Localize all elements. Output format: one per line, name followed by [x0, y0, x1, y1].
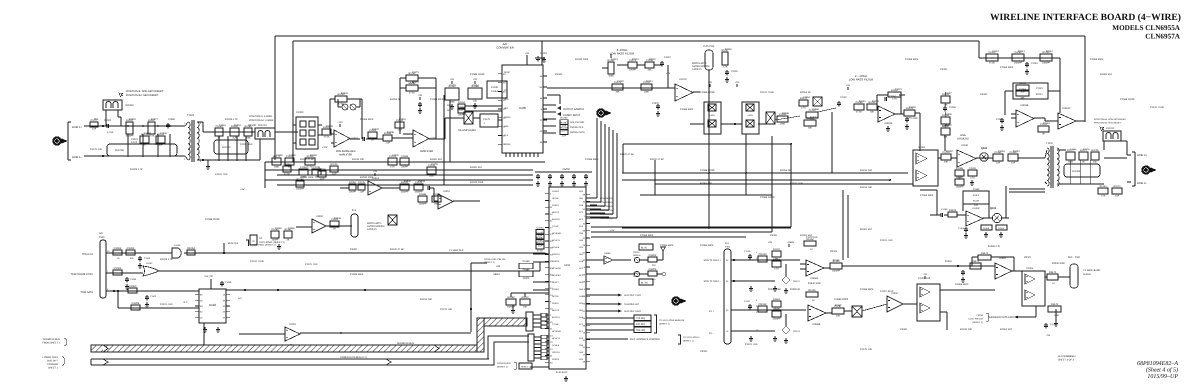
svg-text:54: 54 [583, 273, 586, 276]
svg-text:C1143: C1143 [992, 50, 999, 53]
svg-text:MODELS CLN6955A: MODELS CLN6955A [1112, 24, 1180, 32]
svg-text:C1281: C1281 [969, 167, 977, 170]
svg-text:C1131 .01UF: C1131 .01UF [880, 290, 894, 293]
svg-text:4.7K: 4.7K [801, 106, 806, 109]
svg-text:U1093A: U1093A [884, 122, 893, 125]
svg-text:20: 20 [540, 130, 543, 133]
svg-text:C1106: C1106 [491, 86, 499, 89]
svg-text:COUTB5 (A): COUTB5 (A) [600, 217, 613, 220]
svg-text:10K: 10K [943, 135, 948, 138]
svg-text:R1040 100K: R1040 100K [1052, 262, 1065, 265]
svg-text:C1066 33PF: C1066 33PF [700, 244, 714, 247]
svg-text:C1308: C1308 [401, 155, 409, 158]
svg-text:R1120 47.5K: R1120 47.5K [390, 248, 404, 251]
svg-text:C1196: C1196 [288, 227, 295, 230]
svg-text:43: 43 [583, 281, 586, 284]
svg-text:31: 31 [550, 355, 553, 358]
svg-text:31: 31 [583, 222, 586, 225]
svg-text:R1055 2K: R1055 2K [790, 288, 801, 291]
svg-text:MCUADR: MCUADR [552, 267, 561, 270]
svg-text:JU1008: JU1008 [115, 149, 124, 152]
svg-text:C1044: C1044 [536, 227, 544, 230]
svg-text:TDM CLK: TDM CLK [82, 253, 93, 256]
svg-text:430: 430 [130, 257, 134, 260]
svg-text:AGND: AGND [504, 116, 511, 119]
svg-text:TO: TO [259, 237, 262, 240]
svg-text:C1178: C1178 [431, 163, 438, 166]
svg-text:33K: 33K [647, 68, 652, 71]
svg-text:U1139: U1139 [961, 144, 969, 147]
svg-text:R1172: R1172 [981, 252, 989, 255]
svg-text:47.5K: 47.5K [338, 102, 344, 105]
svg-text:FLT5 P101: FLT5 P101 [703, 45, 715, 48]
svg-text:C1088 220PF: C1088 220PF [1120, 98, 1135, 101]
svg-text:B–XLXLX2: B–XLXLX2 [556, 371, 568, 374]
svg-text:RC1: RC1 [579, 218, 584, 221]
svg-text:(Sheet 4 of 5): (Sheet 4 of 5) [1146, 367, 1178, 374]
svg-text:R1040 100K: R1040 100K [575, 58, 589, 61]
svg-text:R1019: R1019 [234, 124, 241, 127]
svg-text:C1125: C1125 [744, 250, 751, 253]
svg-text:R1171: R1171 [972, 260, 980, 263]
svg-text:SHEET 3 OF 3: SHEET 3 OF 3 [1058, 359, 1075, 362]
svg-text:+5V: +5V [240, 188, 245, 191]
svg-text:R1131: R1131 [859, 100, 866, 103]
svg-text:C1397: C1397 [458, 106, 466, 109]
svg-text:R1040 100K: R1040 100K [768, 288, 781, 291]
svg-text:MCUDBS: MCUDBS [552, 274, 561, 277]
svg-text:R1122: R1122 [649, 58, 656, 61]
svg-text:POSITION A: 4-WIRE: POSITION A: 4-WIRE [249, 115, 273, 118]
svg-text:P101: P101 [1075, 256, 1081, 259]
svg-text:(SHEET 1): (SHEET 1) [484, 261, 495, 264]
svg-text:26: 26 [200, 299, 203, 302]
svg-text:R1150: R1150 [946, 150, 953, 153]
svg-text:TSYNC: TSYNC [552, 225, 559, 228]
svg-text:AMPLIFIER: AMPLIFIER [339, 154, 352, 157]
svg-text:1500PF: 1500PF [772, 317, 781, 320]
svg-text:+5VDC: +5VDC [562, 168, 570, 171]
svg-text:1500PF: 1500PF [1042, 61, 1051, 64]
svg-text:R1061 51K: R1061 51K [700, 182, 712, 185]
svg-text:PL −: PL − [709, 332, 714, 335]
svg-text:U1090: U1090 [604, 252, 611, 255]
svg-text:1UF: 1UF [232, 136, 237, 139]
svg-text:52: 52 [583, 252, 586, 255]
svg-text:R1137: R1137 [945, 92, 952, 95]
svg-text:POSITION B4: SECURENET: POSITION B4: SECURENET [1094, 122, 1122, 125]
svg-text:FROM U101–PIN 103: FROM U101–PIN 103 [484, 258, 506, 261]
svg-text:PL +: PL + [709, 310, 714, 313]
svg-text:U1004: U1004 [430, 137, 437, 140]
svg-text:C1136: C1136 [911, 117, 918, 120]
svg-text:11: 11 [756, 257, 759, 260]
svg-text:8: 8 [584, 288, 586, 291]
svg-text:+5V: +5V [610, 229, 615, 232]
svg-text:Q101: Q101 [990, 207, 997, 210]
svg-text:3: 3 [200, 122, 202, 125]
svg-text:37: 37 [540, 119, 543, 122]
svg-text:R1165: R1165 [808, 289, 816, 292]
svg-text:TO U101–PIN 11: TO U101–PIN 11 [683, 336, 700, 339]
svg-text:C1179 1UF: C1179 1UF [90, 148, 103, 151]
svg-text:50: 50 [540, 86, 543, 89]
svg-text:LINE 2−: LINE 2− [1137, 181, 1148, 185]
svg-text:(SHEET 1): (SHEET 1) [659, 323, 670, 326]
svg-text:C1066 33PF: C1066 33PF [350, 273, 364, 276]
svg-text:R1120 47.5K: R1120 47.5K [650, 158, 664, 161]
svg-text:R1070: R1070 [810, 116, 817, 119]
svg-text:100K: 100K [274, 165, 280, 168]
svg-text:C1066 33PF: C1066 33PF [905, 58, 919, 61]
svg-text:COUTB3 (A): COUTB3 (A) [600, 209, 613, 212]
svg-text:U1001: U1001 [351, 137, 358, 140]
svg-text:RESET 1: RESET 1 [521, 366, 530, 369]
svg-text:C1024: C1024 [144, 132, 151, 135]
svg-text:U1096A: U1096A [810, 277, 819, 280]
svg-text:R1220: R1220 [956, 176, 964, 179]
svg-text:OPTN2: OPTN2 [552, 197, 560, 200]
svg-text:C1066 33PF: C1066 33PF [1090, 58, 1104, 61]
svg-text:31: 31 [583, 339, 586, 342]
svg-text:R1055 2K: R1055 2K [390, 98, 401, 101]
svg-text:C1101 .1UF: C1101 .1UF [215, 173, 228, 176]
svg-text:100K: 100K [434, 202, 440, 205]
svg-text:SCIALB: SCIALB [552, 344, 560, 347]
svg-text:R1126: R1126 [725, 48, 732, 51]
svg-text:53: 53 [200, 294, 203, 297]
svg-text:PORTA: PORTA [552, 302, 559, 305]
svg-text:25: 25 [583, 302, 586, 305]
svg-text:R1055 2K: R1055 2K [780, 169, 791, 172]
svg-text:CODEC: CODEC [552, 190, 560, 193]
svg-text:R1387: R1387 [560, 122, 568, 125]
svg-text:1500PF: 1500PF [832, 269, 841, 272]
svg-text:BL TN: BL TN [641, 282, 648, 285]
svg-text:R1222: R1222 [773, 248, 781, 251]
svg-text:CARD #1: CARD #1 [692, 68, 702, 71]
svg-text:U1103: U1103 [289, 323, 296, 326]
svg-text:C1129: C1129 [731, 70, 738, 73]
svg-text:10K: 10K [870, 110, 875, 113]
svg-text:SDN TX DATA −: SDN TX DATA − [704, 280, 722, 283]
svg-text:220: 220 [652, 278, 656, 281]
svg-text:R1254: R1254 [458, 101, 466, 104]
svg-text:DM IRL DATA: DM IRL DATA [570, 131, 585, 134]
svg-text:TO U101–PINS 96/35/101: TO U101–PINS 96/35/101 [659, 319, 685, 322]
svg-text:C1070: C1070 [652, 102, 659, 105]
svg-text:JU1012: JU1012 [1106, 127, 1115, 130]
svg-text:R1061 51K: R1061 51K [430, 158, 442, 161]
svg-text:MATES WITH: MATES WITH [692, 62, 707, 65]
svg-text:R1061 51K: R1061 51K [860, 228, 872, 231]
svg-text:TDM FRAME SYNC: TDM FRAME SYNC [71, 273, 94, 276]
svg-text:JU1011: JU1011 [125, 104, 134, 107]
svg-text:R1299 4.7K: R1299 4.7K [988, 245, 1001, 248]
svg-text:R1167: R1167 [835, 304, 842, 307]
svg-text:+5V: +5V [473, 78, 478, 81]
svg-text:R1015: R1015 [129, 118, 136, 121]
svg-text:R1077: R1077 [536, 242, 544, 245]
svg-text:FLD: FLD [725, 242, 730, 245]
svg-text:47.5K: 47.5K [856, 110, 862, 113]
svg-text:CLN6957A: CLN6957A [1145, 33, 1181, 41]
svg-text:R1074: R1074 [1113, 185, 1121, 188]
svg-text:U118: U118 [209, 303, 216, 307]
svg-text:C1066 33PF: C1066 33PF [430, 98, 444, 101]
svg-text:2K: 2K [1082, 160, 1085, 163]
svg-text:220PF: 220PF [349, 190, 356, 193]
svg-text:C1203: C1203 [1019, 82, 1027, 85]
svg-text:PA4: PA4 [579, 204, 584, 207]
svg-text:U1102: U1102 [146, 262, 153, 265]
svg-text:C1060: C1060 [168, 118, 175, 121]
svg-text:R1361: R1361 [945, 260, 952, 263]
svg-text:R1203: R1203 [649, 268, 657, 271]
svg-text:100K: 100K [429, 174, 435, 177]
svg-text:WIRELINE INTERFACE BOARD (4−WI: WIRELINE INTERFACE BOARD (4−WIRE) [990, 12, 1181, 23]
svg-text:C1088 220PF: C1088 220PF [700, 169, 715, 172]
svg-text:ADL CH VSD: ADL CH VSD [570, 121, 585, 124]
svg-text:CLK: CLK [504, 134, 509, 137]
svg-text:1500PF: 1500PF [1014, 61, 1023, 64]
svg-text:N.C.: N.C. [184, 301, 189, 304]
svg-text:1UF: 1UF [1011, 161, 1016, 164]
svg-text:Q102: Q102 [981, 147, 988, 150]
svg-text:470PF: 470PF [973, 194, 980, 197]
svg-text:CR101: CR101 [830, 250, 838, 253]
svg-text:LINE 1−: LINE 1− [72, 155, 83, 159]
svg-text:U1096B: U1096B [812, 323, 821, 326]
svg-text:220: 220 [652, 264, 656, 267]
svg-text:C1133: C1133 [895, 88, 902, 91]
svg-text:12: 12 [583, 353, 586, 356]
svg-text:R1204: R1204 [132, 302, 140, 305]
svg-text:C1160: C1160 [973, 188, 980, 191]
svg-text:R1040 100K: R1040 100K [300, 176, 314, 179]
svg-text:U1010: U1010 [443, 190, 450, 193]
svg-text:+5V: +5V [923, 273, 928, 276]
svg-text:47.5K: 47.5K [323, 135, 329, 138]
svg-text:C1195: C1195 [275, 227, 282, 230]
svg-text:+5V: +5V [846, 84, 851, 87]
svg-text:AUX OUT 2 HIT: AUX OUT 2 HIT [624, 294, 642, 297]
svg-text:CR101: CR101 [980, 93, 988, 96]
svg-text:.1UF: .1UF [359, 190, 365, 193]
svg-text:100K: 100K [1068, 160, 1074, 163]
svg-text:68P81094E82–A: 68P81094E82–A [1137, 361, 1178, 367]
svg-text:ADDRESS BUS: ADDRESS BUS [397, 342, 415, 345]
svg-text:SHEET 1: SHEET 1 [48, 367, 59, 370]
svg-text:+5V: +5V [525, 52, 530, 55]
svg-text:PORTB: PORTB [552, 358, 560, 361]
svg-text:30: 30 [726, 309, 729, 312]
svg-text:TX WIDE BAND: TX WIDE BAND [1083, 269, 1101, 272]
svg-text:PB1: PB1 [579, 197, 584, 200]
svg-text:PORTA: PORTA [552, 204, 559, 207]
svg-text:+5V: +5V [373, 170, 378, 173]
svg-text:R1225: R1225 [330, 163, 338, 166]
svg-text:C1088 220PF: C1088 220PF [470, 73, 485, 76]
svg-text:R1234 10K: R1234 10K [420, 298, 432, 301]
svg-text:C1088 220PF: C1088 220PF [205, 218, 220, 221]
svg-text:13: 13 [726, 330, 729, 333]
svg-text:C1131 .01UF: C1131 .01UF [760, 91, 775, 94]
svg-text:N.C.: N.C. [238, 297, 243, 300]
svg-text:C1098: C1098 [225, 281, 232, 284]
svg-text:.1UF: .1UF [332, 172, 338, 175]
svg-text:IDLE LOOPBACK CONTROL: IDLE LOOPBACK CONTROL [630, 338, 661, 341]
svg-text:1500PF: 1500PF [418, 202, 427, 205]
svg-text:U1091: U1091 [747, 114, 753, 117]
svg-text:CR122: CR122 [758, 303, 767, 306]
svg-text:R1006: R1006 [1091, 149, 1099, 152]
svg-text:U1106: U1106 [174, 244, 181, 247]
svg-text:C1176: C1176 [1050, 323, 1057, 326]
svg-text:C1122: C1122 [664, 56, 671, 59]
svg-text:C1023: C1023 [131, 138, 138, 141]
svg-text:R1010: R1010 [521, 296, 529, 299]
svg-text:47: 47 [223, 316, 226, 319]
svg-text:100K: 100K [1054, 314, 1060, 317]
svg-text:(SHEET 1): (SHEET 1) [683, 340, 694, 343]
svg-text:R1234 10K: R1234 10K [352, 158, 364, 161]
svg-text:47.5K: 47.5K [409, 91, 415, 94]
svg-text:6: 6 [584, 266, 586, 269]
svg-text:GREEN: GREEN [633, 254, 641, 257]
svg-text:100K: 100K [644, 90, 650, 93]
svg-text:R1042: R1042 [404, 180, 411, 183]
svg-text:C1101 .1UF: C1101 .1UF [160, 303, 173, 306]
svg-text:ASTRO MODEM: ASTRO MODEM [692, 65, 709, 68]
svg-text:C1155: C1155 [941, 208, 948, 211]
svg-text:CODEC: CODEC [552, 288, 560, 291]
svg-text:U101–PIN 10A: U101–PIN 10A [968, 318, 983, 321]
svg-text:C1099: C1099 [130, 278, 137, 281]
svg-text:C1053: C1053 [1019, 88, 1027, 91]
svg-text:4.7UF: 4.7UF [107, 131, 114, 134]
svg-text:R1234 10K: R1234 10K [960, 328, 972, 331]
svg-text:PD3: PD3 [579, 225, 584, 228]
svg-text:R1134: R1134 [1100, 185, 1108, 188]
svg-text:TDM DATA: TDM DATA [81, 291, 94, 294]
svg-text:C1064: C1064 [803, 96, 810, 99]
svg-text:C1179 1UF: C1179 1UF [440, 308, 453, 311]
svg-text:4.7K: 4.7K [1101, 194, 1106, 197]
svg-text:10K: 10K [523, 305, 528, 308]
svg-text:CR101: CR101 [350, 248, 358, 251]
svg-text:C1131 .01UF: C1131 .01UF [1150, 106, 1165, 109]
svg-text:U101D: U101D [679, 78, 687, 81]
svg-text:47.5K: 47.5K [989, 61, 995, 64]
svg-text:SPRCLK: SPRCLK [552, 253, 561, 256]
svg-text:34: 34 [540, 141, 543, 144]
svg-text:CR123: CR123 [793, 330, 801, 333]
svg-text:R1017: R1017 [151, 118, 158, 121]
svg-text:33K: 33K [1020, 96, 1025, 99]
svg-text:R1135: R1135 [909, 106, 916, 109]
svg-text:2.4 MHZ CLK: 2.4 MHZ CLK [449, 249, 464, 252]
svg-text:U1093B: U1093B [1020, 104, 1029, 107]
svg-text:1: 1 [584, 215, 586, 218]
svg-text:C1170: C1170 [449, 84, 456, 87]
svg-text:59: 59 [583, 295, 586, 298]
svg-text:R1040 100K: R1040 100K [470, 181, 484, 184]
svg-text:TALKOFF HIT: TALKOFF HIT [624, 303, 640, 306]
svg-text:R1391: R1391 [773, 298, 781, 301]
svg-text:33K: 33K [944, 160, 949, 163]
svg-text:R1388: R1388 [419, 193, 427, 196]
svg-text:220PF: 220PF [458, 113, 465, 116]
svg-text:16: 16 [540, 97, 543, 100]
svg-text:C1132: C1132 [773, 308, 781, 311]
svg-text:CR120: CR120 [758, 253, 767, 256]
svg-text:SCIALB: SCIALB [552, 246, 560, 249]
svg-text:AUX OUT 3 HIT: AUX OUT 3 HIT [624, 310, 642, 313]
svg-text:C1336: C1336 [522, 268, 530, 271]
svg-text:ASTRO MODEM: ASTRO MODEM [367, 225, 384, 228]
svg-text:−5V: −5V [1046, 334, 1051, 337]
svg-text:SDN TX DATA +: SDN TX DATA + [704, 259, 722, 262]
svg-text:U1095: U1095 [1026, 267, 1034, 270]
svg-text:DGND: DGND [504, 143, 511, 146]
svg-text:220PF: 220PF [523, 277, 530, 280]
svg-text:R1156: R1156 [949, 209, 957, 212]
svg-text:C1000: C1000 [104, 119, 112, 122]
svg-text:52: 52 [200, 311, 203, 314]
svg-text:59: 59 [583, 230, 586, 233]
svg-text:R1158: R1158 [983, 227, 990, 230]
svg-text:C1138: C1138 [949, 106, 956, 109]
svg-text:C1256: C1256 [318, 168, 326, 171]
svg-text:FROM: FROM [977, 314, 984, 317]
svg-text:PORTB: PORTB [552, 260, 560, 263]
svg-text:LOW PASS FILTER: LOW PASS FILTER [610, 52, 635, 56]
svg-text:TSYNC: TSYNC [552, 323, 559, 326]
svg-text:POSITION B: NON-SECURENET: POSITION B: NON-SECURENET [126, 90, 164, 93]
svg-text:POSITION A4: 2-WIRE: POSITION A4: 2-WIRE [249, 119, 274, 122]
svg-text:COUTB4 (A): COUTB4 (A) [600, 213, 613, 216]
svg-text:R1142: R1142 [1046, 50, 1053, 53]
svg-text:U101–PIN11 (SHEET 1): U101–PIN11 (SHEET 1) [252, 244, 276, 247]
svg-text:R1164: R1164 [998, 227, 1005, 230]
svg-text:C1202: C1202 [392, 154, 399, 157]
svg-text:46: 46 [583, 317, 586, 320]
svg-text:C1132: C1132 [840, 96, 847, 99]
svg-text:R1061 51K: R1061 51K [470, 166, 482, 169]
svg-text:R1176: R1176 [1051, 303, 1059, 306]
svg-text:COUTB2 (A): COUTB2 (A) [600, 205, 613, 208]
svg-text:100K: 100K [780, 122, 786, 125]
svg-text:LOWER DATA BUS (0-7): LOWER DATA BUS (0-7) [340, 356, 367, 359]
svg-text:C1066 33PF: C1066 33PF [360, 118, 374, 121]
svg-text:R1061 51K: R1061 51K [1100, 73, 1112, 76]
svg-text:R1299 4.7K: R1299 4.7K [160, 258, 173, 261]
svg-text:C1179 1UF: C1179 1UF [806, 236, 818, 239]
svg-text:10: 10 [117, 257, 120, 260]
svg-text:1UF: 1UF [1115, 194, 1120, 197]
svg-text:CARD #1: CARD #1 [367, 228, 377, 231]
svg-text:R1178: R1178 [1083, 148, 1090, 151]
svg-text:U1139C: U1139C [972, 207, 980, 210]
svg-text:10K: 10K [836, 314, 841, 317]
svg-text:MODTP: MODTP [552, 309, 560, 312]
svg-text:58: 58 [583, 193, 586, 196]
svg-text:C1195: C1195 [276, 154, 283, 157]
svg-text:BUSCLK: BUSCLK [552, 316, 561, 319]
svg-text:C1066 33PF: C1066 33PF [920, 194, 934, 197]
svg-text:13: 13 [550, 334, 553, 337]
